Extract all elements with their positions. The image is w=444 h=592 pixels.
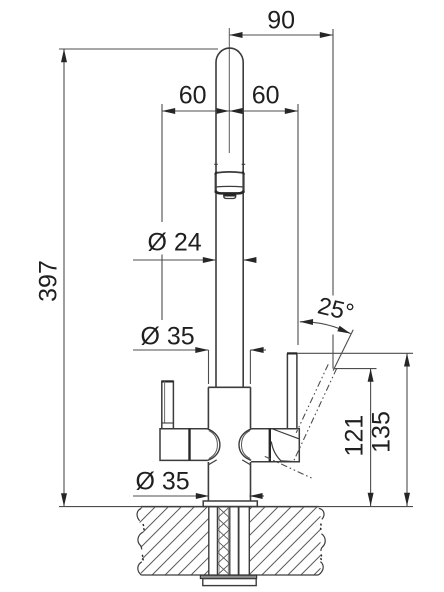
- riser column top: [208, 386, 251, 388]
- dimension 121 line: [370, 369, 372, 506]
- countertop broken edge left: [137, 508, 141, 520]
- left valve divider: [188, 429, 190, 461]
- svg-text:60: 60: [179, 82, 207, 110]
- countertop broken edge right: [319, 508, 324, 519]
- right handle vertical position: [287, 353, 297, 428]
- riser column upper sides: [207, 387, 209, 428]
- svg-text:25°: 25°: [315, 292, 356, 326]
- right valve fillet: [239, 429, 252, 461]
- svg-text:Ø 24: Ø 24: [148, 229, 202, 257]
- dimension 135 line: [406, 353, 408, 506]
- riser column lower sides: [207, 462, 209, 501]
- svg-text:Ø 35: Ø 35: [136, 468, 190, 496]
- mounting hole left edge: [208, 507, 210, 575]
- spray head outlet nozzle: [224, 194, 236, 198]
- dimension diameter 24: [133, 259, 216, 261]
- dimension 60/60 line: [162, 110, 298, 112]
- extension line 135 top: [298, 352, 414, 354]
- svg-text:Ø 35: Ø 35: [141, 323, 195, 351]
- countertop hatching right: [249, 507, 320, 575]
- dimension 397 vertical line: [63, 49, 65, 506]
- svg-text:397: 397: [35, 260, 63, 302]
- threaded stud: [216, 507, 218, 575]
- svg-text:60: 60: [252, 82, 280, 110]
- dimension arc 25 deg: [300, 322, 351, 334]
- dimension diameter 35 mid: [133, 349, 209, 351]
- left valve fillet: [207, 429, 220, 461]
- countertop bottom edge: [141, 574, 318, 576]
- spout tube with rounded top: [216, 48, 243, 387]
- spray head housing: [214, 173, 216, 193]
- extension line right of 90: [332, 29, 334, 296]
- dimension diameter 35 bottom: [133, 495, 209, 497]
- right valve rotated-handle base lines: [271, 429, 298, 439]
- left handle lever: [162, 381, 174, 428]
- extension line: faucet top height: [59, 48, 218, 50]
- spout centre line: [228, 28, 230, 153]
- extension line 121 top: [334, 368, 377, 370]
- svg-text:135: 135: [368, 411, 396, 453]
- extension line 60 left: [161, 104, 163, 222]
- right valve body: [251, 429, 299, 462]
- base flange: [203, 501, 257, 507]
- countertop surface / extension line: [59, 506, 413, 508]
- svg-text:90: 90: [267, 7, 295, 35]
- right handle tilted 25 deg phantom: [296, 364, 328, 432]
- right valve divider: [269, 429, 271, 462]
- dimension 90 line: [229, 34, 333, 36]
- extension line 60 right: [297, 104, 299, 345]
- extension stubs diameter 35: [208, 350, 210, 384]
- washer: [200, 575, 256, 578]
- spray head joint ticks: [214, 163, 218, 165]
- mounting hole right edge: [248, 507, 250, 575]
- countertop hatching left: [140, 507, 209, 575]
- mounting nut: [203, 579, 256, 586]
- tilted handle axis reference line: [333, 330, 353, 371]
- supply pipe line: [238, 507, 240, 575]
- svg-text:121: 121: [341, 415, 369, 457]
- left valve body: [160, 429, 208, 461]
